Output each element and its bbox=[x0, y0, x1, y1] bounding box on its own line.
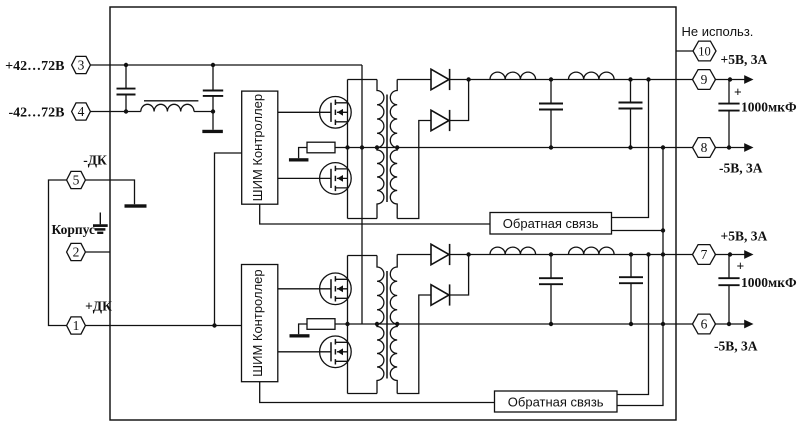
pin 6 bbox=[693, 314, 716, 334]
resistor R2 bbox=[307, 319, 335, 330]
wire T2 secondary top to rectifier bbox=[397, 254, 431, 256]
transformer T1 secondary winding bbox=[390, 80, 397, 219]
module boundary bbox=[110, 7, 676, 420]
svg-text:Обратная связь: Обратная связь bbox=[503, 216, 599, 231]
svg-text:-5В, 3А: -5В, 3А bbox=[719, 161, 763, 176]
wire pin2 to boundary bbox=[85, 251, 110, 253]
wire feedback1 sense+ bbox=[612, 80, 649, 218]
ground bar B bbox=[202, 130, 223, 133]
wire T1 bottom to diode D2 bbox=[397, 121, 431, 219]
capacitor C2 bbox=[203, 65, 223, 112]
node C6 bottom bbox=[629, 322, 633, 326]
wire +42V center-tap feed bbox=[361, 65, 363, 324]
feedback box 2 bbox=[495, 391, 618, 412]
junction +ДК bbox=[212, 323, 216, 327]
inductor L1 bbox=[141, 104, 194, 111]
svg-text:2: 2 bbox=[73, 245, 80, 260]
wire Q3-Q4 drain-source rail bbox=[347, 256, 349, 394]
node channel1 common junctions bbox=[345, 145, 349, 149]
wire pin5-pin1 bracket bbox=[49, 180, 67, 326]
capacitor C8 1000мкФ bbox=[718, 255, 739, 325]
wire +5V rail 1 bbox=[450, 79, 694, 81]
transformer T1 primary frame bbox=[348, 80, 378, 219]
svg-text:9: 9 bbox=[701, 72, 708, 87]
wire U1 gate outputs bbox=[278, 112, 331, 178]
svg-text:+: + bbox=[737, 259, 745, 274]
wire C2 to ground bbox=[212, 112, 214, 130]
svg-text:-5В, 3А: -5В, 3А bbox=[714, 339, 758, 354]
wire T2 bottom to diode D4 bbox=[397, 295, 431, 394]
capacitor C4 bbox=[619, 80, 643, 148]
capacitor C6 bbox=[619, 255, 643, 325]
svg-text:-42…72В: -42…72В bbox=[9, 105, 65, 120]
wire R1 leads bbox=[299, 148, 348, 159]
arrow +5V out 2 bbox=[715, 254, 748, 256]
inductor L3 bbox=[569, 72, 615, 79]
chassis ground bbox=[93, 213, 108, 233]
resistor R1 bbox=[307, 142, 335, 153]
pin 10 bbox=[693, 41, 716, 61]
transformer T2 secondary winding bbox=[390, 255, 397, 394]
pin 5 bbox=[67, 171, 86, 188]
wire pin1 +ДК line bbox=[85, 325, 241, 327]
inductor L4 bbox=[490, 247, 536, 254]
svg-text:+5В, 3А: +5В, 3А bbox=[721, 52, 768, 67]
wire D4 cathode bbox=[450, 255, 469, 296]
wire pin10 stub bbox=[676, 50, 693, 52]
feedback box 1 bbox=[490, 213, 612, 235]
svg-text:Не использ.: Не использ. bbox=[682, 24, 754, 39]
wire Q1-Q2 drain-source rail bbox=[347, 80, 349, 219]
pin 3 bbox=[72, 56, 91, 73]
capacitor C5 bbox=[539, 255, 563, 325]
node C7 bottom bbox=[727, 145, 731, 149]
svg-text:3: 3 bbox=[78, 58, 85, 73]
svg-text:+: + bbox=[734, 85, 742, 100]
svg-text:+ДК: +ДК bbox=[85, 299, 112, 314]
svg-text:Обратная связь: Обратная связь bbox=[508, 394, 604, 409]
pin 1 bbox=[67, 317, 86, 334]
wire R2 leads bbox=[299, 324, 348, 334]
diode D4 bbox=[431, 284, 450, 305]
svg-text:8: 8 bbox=[701, 140, 708, 155]
ground bar C bbox=[289, 158, 309, 161]
wire U2 gate outputs bbox=[278, 289, 331, 352]
svg-text:+5В, 3А: +5В, 3А bbox=[721, 229, 768, 244]
diode D2 bbox=[431, 110, 450, 131]
wire T1 secondary top to rectifier bbox=[397, 79, 431, 81]
capacitor C7 1000мкФ bbox=[718, 80, 739, 148]
wire feedback1 sense- bbox=[612, 230, 664, 232]
wire -42V line bbox=[90, 111, 213, 113]
node rail2 junctions bbox=[466, 252, 470, 256]
svg-text:-ДК: -ДК bbox=[83, 153, 107, 168]
transformer T2 core bbox=[386, 271, 388, 379]
node C8 bottom bbox=[727, 322, 731, 326]
wire feedback2 sense+ bbox=[617, 255, 649, 395]
node rail1 junctions bbox=[466, 77, 470, 81]
pin 7 bbox=[693, 245, 716, 265]
wire U1 feedback input bbox=[260, 204, 490, 224]
diode D3 bbox=[431, 244, 450, 265]
transistor Q1 bbox=[320, 97, 352, 129]
PWM controller U2 bbox=[242, 265, 278, 382]
wire common bus right bbox=[617, 148, 663, 406]
arrow -5V out 2 bbox=[715, 323, 748, 325]
transistor Q2 bbox=[320, 163, 352, 195]
pin 9 bbox=[693, 70, 716, 90]
svg-text:6: 6 bbox=[701, 317, 708, 332]
wire channel1 common line bbox=[348, 147, 694, 149]
node common bus junctions bbox=[661, 145, 665, 149]
capacitor C3 bbox=[539, 80, 563, 148]
node C4 bottom bbox=[628, 145, 632, 149]
transformer T2 primary winding bbox=[377, 256, 384, 394]
svg-text:4: 4 bbox=[78, 104, 85, 119]
pin 8 bbox=[693, 138, 716, 158]
svg-text:Корпус: Корпус bbox=[52, 222, 95, 237]
svg-text:ШИМ Контроллер: ШИМ Контроллер bbox=[250, 94, 265, 201]
svg-text:+42…72В: +42…72В bbox=[5, 59, 64, 74]
ground bar A bbox=[125, 204, 147, 207]
svg-text:1000мкФ: 1000мкФ bbox=[741, 100, 797, 115]
wire channel2 common line bbox=[348, 323, 694, 325]
ground bar D bbox=[290, 334, 310, 337]
pin 2 bbox=[67, 243, 86, 260]
wire pin5 to ground bbox=[85, 180, 134, 204]
pin 4 bbox=[72, 103, 91, 120]
transistor Q3 bbox=[320, 273, 352, 305]
arrow +5V out 1 bbox=[715, 79, 748, 81]
node channel2 common junctions bbox=[345, 322, 349, 326]
wire +5V rail 2 bbox=[450, 254, 694, 256]
transformer T1 primary winding bbox=[377, 80, 384, 219]
node pin7 out bbox=[728, 252, 732, 256]
node pin9 out bbox=[728, 77, 732, 81]
node C3 bottom bbox=[549, 145, 553, 149]
wire D2 cathode bbox=[450, 80, 469, 121]
inductor L5 bbox=[569, 247, 615, 254]
arrow -5V out 1 bbox=[715, 147, 748, 149]
svg-text:5: 5 bbox=[73, 173, 80, 188]
inductor L2 bbox=[490, 72, 536, 79]
svg-text:ШИМ Контроллер: ШИМ Контроллер bbox=[250, 269, 265, 376]
wire +42V rail bbox=[90, 64, 362, 66]
capacitor C1 bbox=[117, 65, 136, 112]
node C5 bottom bbox=[549, 322, 553, 326]
transformer T1 core bbox=[386, 95, 388, 203]
svg-text:1: 1 bbox=[73, 318, 80, 333]
wire PWM1 supply bbox=[215, 153, 242, 326]
PWM controller U1 bbox=[242, 91, 278, 204]
svg-text:1000мкФ: 1000мкФ bbox=[741, 275, 797, 290]
svg-text:7: 7 bbox=[701, 247, 708, 262]
svg-text:10: 10 bbox=[698, 45, 711, 59]
transformer T2 primary frame bbox=[348, 256, 378, 394]
diode D1 bbox=[431, 69, 450, 90]
wire U2 feedback input bbox=[260, 382, 495, 403]
node -42V junctions bbox=[124, 109, 128, 113]
transistor Q4 bbox=[320, 336, 352, 368]
node +42V junctions bbox=[124, 63, 128, 67]
